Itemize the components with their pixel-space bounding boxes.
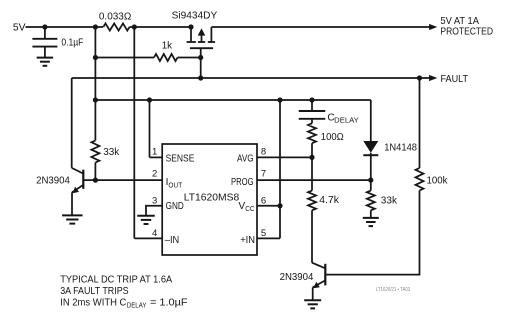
svg-text:CC: CC [245, 204, 254, 213]
transistor Q2 collector diagonal [312, 263, 325, 269]
svg-text:5V: 5V [13, 22, 26, 33]
mosfet Si9434DY source channel segment [187, 41, 196, 43]
wire 100 ohm bottom to AVG node [311, 143, 313, 157]
svg-text:100k: 100k [427, 176, 449, 187]
svg-text:2: 2 [152, 168, 157, 179]
junction dot: VCC branch [277, 97, 282, 102]
svg-text:DELAY: DELAY [334, 116, 359, 125]
mosfet Q Si9434DY source lead [190, 27, 192, 41]
svg-text:SENSE: SENSE [166, 154, 195, 165]
junction dot: AVG / 100 ohm / 4.7k node [309, 155, 314, 160]
wire MOSFET gate lead down to 1k node [200, 48, 202, 57]
wire pin3 GND stub [146, 206, 162, 215]
svg-text:3A FAULT TRIPS: 3A FAULT TRIPS [60, 286, 129, 297]
svg-text:2N3904: 2N3904 [280, 272, 314, 283]
wire 0.1uF cap bottom lead [44, 47, 46, 58]
transistor Q2 base bar [324, 264, 326, 286]
ground at Q2 emitter [304, 299, 321, 301]
junction dot: 33k top at 5V branch [93, 97, 98, 102]
transistor Q1 collector diagonal [72, 168, 84, 174]
ground at Q1 emitter [62, 214, 83, 216]
svg-text:FAULT: FAULT [441, 74, 469, 85]
wire 100k top lead from FAULT [419, 78, 421, 168]
wire pin8 AVG line [257, 156, 312, 158]
resistor 100k [416, 168, 424, 191]
svg-text:33k: 33k [103, 147, 120, 158]
mosfet Si9434DY drain lead [210, 27, 212, 41]
svg-text:0.1µF: 0.1µF [61, 37, 83, 48]
svg-text:PROTECTED: PROTECTED [440, 27, 493, 38]
transistor Q1 emitter diagonal [72, 185, 83, 192]
resistor 33k left [91, 141, 99, 163]
transistor Q1 emitter arrow [73, 187, 79, 194]
svg-text:3: 3 [152, 195, 157, 206]
wire SENSE vertical [149, 100, 151, 157]
junction dot: 33k bottom on IOUT line [93, 178, 98, 183]
mosfet Si9434DY body channel segment [198, 41, 205, 43]
resistor 33k right [367, 191, 375, 211]
wire VCC-SENSE rail [95, 99, 370, 101]
wire 5V rail between sense resistor and MOSFET source [130, 26, 192, 28]
wire 33k right bottom lead [370, 210, 372, 217]
wire 33k-left upper lead (5V branch vertical) [94, 27, 96, 141]
wire pin7 PROG line [257, 179, 371, 181]
junction dot: MOSFET source on 5V rail [188, 24, 193, 29]
svg-text:7: 7 [261, 168, 266, 179]
junction dot: VCC pin6 node [277, 203, 282, 208]
capacitor C CDELAY [299, 110, 326, 112]
wire CDELAY to 100 ohm [311, 119, 313, 124]
svg-text:1N4148: 1N4148 [384, 143, 417, 154]
wire 5V protected rail (MOSFET drain to output arrow) [211, 26, 430, 28]
svg-text:+IN: +IN [240, 235, 255, 246]
svg-text:= 1.0µF: = 1.0µF [150, 297, 188, 308]
wire 100k bottom to Q2 base corner [325, 191, 419, 275]
svg-text:5V AT 1A: 5V AT 1A [440, 16, 479, 27]
mosfet Si9434DY drain channel segment [208, 41, 215, 43]
svg-text:–IN: –IN [165, 235, 179, 246]
wire pin4 stub [134, 237, 162, 239]
wire pin2 IOUT line to Q1 base [83, 179, 162, 181]
svg-text:TYPICAL DC TRIP AT 1.6A: TYPICAL DC TRIP AT 1.6A [60, 275, 172, 286]
wire 33k-left lower lead to IOUT line [94, 163, 96, 181]
junction dot: CDELAY branch [309, 97, 314, 102]
wire 5V rail left segment (5V label to sense resistor) [26, 26, 104, 28]
svg-text:LT1620/21 • TA03: LT1620/21 • TA03 [376, 287, 410, 293]
svg-text:DELAY: DELAY [127, 300, 147, 309]
wire -IN vertical from sense resistor right [133, 27, 135, 238]
svg-text:33k: 33k [381, 196, 398, 207]
svg-text:GND: GND [166, 201, 184, 212]
wire pin5 +IN stub [257, 237, 280, 239]
transistor Q2 emitter diagonal [313, 280, 326, 287]
wire diode cathode to PROG node [370, 153, 372, 191]
junction dot: gate / 1k node [198, 55, 203, 60]
svg-text:1: 1 [152, 147, 157, 158]
junction dot: 100k tap on FAULT line [417, 75, 422, 80]
svg-text:100Ω: 100Ω [321, 132, 344, 143]
capacitor C 0.1uF [32, 38, 57, 40]
wire Q2 emitter to ground [312, 287, 314, 299]
junction dot: PROG / diode / 33k node [368, 178, 373, 183]
fault output arrow [429, 75, 437, 81]
mosfet Si9434DY body arrow (points up) [198, 28, 206, 35]
wire 1k line right segment to gate node [178, 57, 201, 59]
svg-text:Si9434DY: Si9434DY [172, 11, 218, 22]
svg-text:IN 2ms WITH C: IN 2ms WITH C [60, 297, 126, 308]
resistor 1k [154, 54, 178, 61]
svg-text:OUT: OUT [168, 180, 182, 189]
wire 4.7k bottom to Q2 collector [311, 210, 313, 262]
svg-text:0.033Ω: 0.033Ω [99, 11, 132, 22]
ground below right 33k [363, 217, 379, 219]
wire AVG node down to 4.7k [311, 157, 313, 190]
svg-text:4: 4 [152, 228, 157, 239]
resistor 0.033 ohm sense [103, 23, 129, 30]
junction dot: 5V rail at sense resistor right / -IN branch [132, 24, 137, 29]
wire gate node down to FAULT line [200, 58, 202, 79]
junction dot: gate node on FAULT line [198, 75, 203, 80]
svg-text:1k: 1k [162, 41, 173, 52]
diode D1 1N4148 triangle [363, 141, 378, 153]
junction dot: SENSE branch [147, 97, 152, 102]
svg-text:8: 8 [261, 147, 266, 158]
transistor Q1 base bar [82, 170, 84, 189]
transistor Q2 emitter arrow [313, 282, 320, 289]
svg-text:6: 6 [261, 195, 266, 206]
junction dot: 1k at 5V sense branch [93, 55, 98, 60]
wire FAULT corner down to Q1 collector [71, 78, 73, 168]
wire FAULT line [72, 77, 430, 79]
output arrow 5V AT 1A [429, 24, 437, 30]
wire 0.1uF cap top lead [44, 27, 46, 39]
svg-text:PROG: PROG [231, 177, 254, 188]
ground below 0.1uF cap [37, 57, 54, 59]
mosfet Si9434DY body lead [201, 34, 203, 43]
svg-text:4.7k: 4.7k [319, 195, 340, 206]
wire CDELAY top lead [311, 100, 313, 111]
ground at pin 3 [137, 215, 155, 217]
wire Q1 emitter to ground [71, 192, 73, 215]
op-amp IC U1 LT1620MS8 body [162, 144, 257, 255]
svg-text:LT1620MS8: LT1620MS8 [184, 193, 240, 204]
wire pin6 VCC stub [257, 205, 280, 207]
wire 1k line left segment [95, 57, 154, 59]
junction dot: 5V rail at 0.1uF cap [42, 24, 47, 29]
resistor 100 ohm [308, 123, 316, 143]
wire pin1 stub [150, 156, 163, 158]
diode D1 1N4148 cathode bar [363, 154, 378, 156]
wire VCC vertical (rail to +IN corner) [279, 100, 281, 238]
mosfet Si9434DY gate bar [190, 47, 213, 49]
junction dot: 5V rail at sense resistor left / 33k branch [93, 24, 98, 29]
wire VCC rail corner down to diode anode [370, 100, 372, 141]
svg-text:AVG: AVG [237, 154, 254, 165]
resistor 4.7k [308, 191, 316, 211]
svg-text:2N3904: 2N3904 [36, 176, 70, 187]
